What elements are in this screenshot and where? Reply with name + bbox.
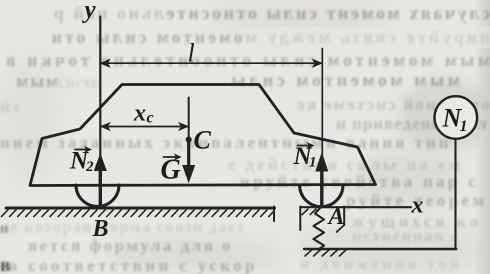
dimension l right arrowhead — [313, 60, 322, 67]
bleed-through text row 4 left bit — [0, 71, 58, 92]
faded text row 10 — [346, 191, 490, 211]
wire to dynamometer — [454, 139, 456, 249]
paper shading streak right edge — [474, 0, 490, 274]
svg-text:y: y — [82, 0, 97, 24]
pit left wall — [299, 207, 301, 231]
pit right wall — [343, 207, 345, 226]
faded text row 13 — [8, 256, 258, 274]
svg-text:G: G — [161, 155, 181, 186]
faded text row 7 — [0, 133, 458, 153]
spring base line — [304, 248, 456, 250]
extension line right (over car, merges with N1 shaft) — [321, 49, 323, 207]
svg-text:C: C — [194, 126, 212, 155]
dimension l line — [101, 62, 322, 64]
bleed-through text row 3 — [0, 50, 490, 71]
dimension xc right arrowhead — [179, 123, 188, 130]
left wheel — [76, 185, 119, 206]
svg-text:x: x — [411, 193, 424, 219]
bleed-through text row 5 left bit — [0, 97, 38, 117]
pit right wall tick — [337, 225, 345, 232]
car body — [30, 85, 376, 186]
bleed-through text row 1 — [52, 3, 490, 24]
fade overlay on row 2 right half — [245, 26, 490, 48]
faded text row 8 — [228, 155, 490, 175]
force N2 vector — [99, 171, 102, 207]
svg-text:1: 1 — [309, 155, 317, 171]
spring — [314, 208, 325, 250]
ground line — [6, 207, 275, 210]
faded text row 6 right — [336, 114, 490, 134]
paper blotch top mid — [210, 0, 390, 34]
bleed-through text row 4 right — [150, 70, 460, 91]
paper blotch bottom right — [300, 225, 490, 274]
base hatching — [305, 250, 346, 256]
point C dot — [186, 137, 192, 143]
C vertical line — [188, 98, 190, 141]
bleed-through text row 5 right — [298, 95, 490, 115]
dynamometer circle N1 — [435, 96, 478, 139]
paper blotch lower middle — [110, 238, 280, 272]
x-axis — [301, 206, 412, 208]
dimension l left arrowhead — [101, 60, 110, 67]
faded text row 11 left — [0, 219, 252, 237]
force G vector — [187, 140, 190, 168]
faded text row 12 left — [28, 236, 236, 256]
ground right wall — [273, 207, 275, 222]
faded text row 13 right — [300, 256, 470, 274]
faded text row 12 right — [352, 228, 472, 246]
pit hatch mark 2 — [310, 209, 316, 215]
svg-text:B: B — [92, 216, 109, 242]
ground hatching — [2, 210, 275, 217]
svg-text:x: x — [133, 101, 146, 127]
force N1 vector — [320, 172, 323, 207]
faded text row 9 — [240, 172, 490, 192]
right wheel — [300, 185, 343, 207]
faded text row 11 right — [352, 212, 490, 232]
paper blotch upper right — [400, 80, 490, 150]
svg-text:l: l — [188, 39, 195, 68]
svg-text:2: 2 — [85, 159, 94, 175]
bleed-through text row 4 left faint — [58, 73, 118, 93]
bleed-through text row 2 — [50, 27, 490, 48]
dimension xc left arrowhead — [101, 123, 110, 130]
paper blotch right mid — [355, 150, 455, 210]
paper blotch left mid — [0, 60, 60, 180]
dimension xc line — [101, 126, 188, 128]
pit hatch mark 1 — [302, 209, 308, 215]
fade overlay on row 1 left part — [40, 2, 160, 24]
dark corner fragment bottom left — [0, 255, 15, 274]
y-axis — [99, 17, 101, 208]
svg-text:c: c — [147, 110, 154, 127]
svg-text:1: 1 — [460, 118, 468, 135]
dark left-edge fragment mid — [0, 221, 8, 238]
